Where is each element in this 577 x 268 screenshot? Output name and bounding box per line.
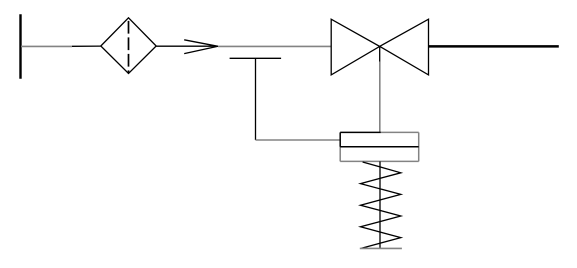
- supply terminal bar: [19, 14, 21, 79]
- wire filter to arrow: [156, 45, 218, 47]
- filter F1 (diamond): [101, 18, 156, 74]
- pilot tap T bar: [230, 57, 282, 59]
- spring: [361, 162, 401, 248]
- control valve V1 right body: [380, 19, 429, 75]
- actuator A1 upper chamber (black outline): [340, 132, 381, 146]
- control valve V1 left body: [331, 19, 380, 75]
- spring base line (gray): [360, 247, 402, 249]
- actuator A1 diaphragm line (black): [340, 146, 419, 148]
- filter F1 dashed element line: [128, 18, 130, 74]
- actuator stem through spring: [379, 161, 381, 248]
- actuator A1 diaphragm housing (gray outline): [340, 132, 419, 161]
- valve stem wire upper (black): [379, 46, 381, 61]
- flow arrow head: [184, 40, 218, 54]
- pilot wire to actuator (gray): [256, 139, 341, 141]
- wire supply to filter (black segment): [72, 45, 101, 47]
- wire arrow to valve (gray): [218, 45, 331, 47]
- wire supply to filter (gray segment): [21, 45, 72, 47]
- valve stem wire (gray): [379, 62, 381, 133]
- pilot tap stem wire: [255, 58, 257, 140]
- wire valve outlet (black thick): [429, 45, 559, 48]
